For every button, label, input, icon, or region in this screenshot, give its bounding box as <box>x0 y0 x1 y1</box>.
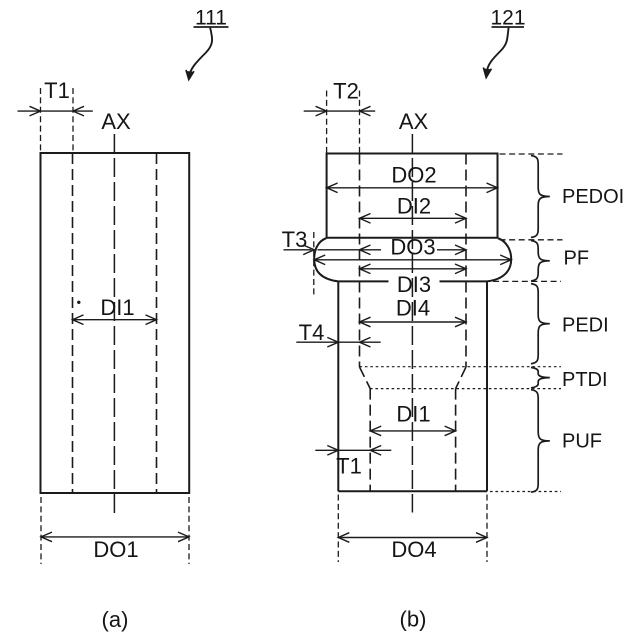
inner wall right taper (hidden) <box>456 367 466 389</box>
DI2 dimension line <box>360 217 467 219</box>
svg-text:T1: T1 <box>44 78 70 103</box>
svg-text:(a): (a) <box>102 607 129 632</box>
svg-text:121: 121 <box>490 7 525 30</box>
tube (a) inner wall left (hidden line) <box>72 153 74 493</box>
DI4 dimension line <box>360 321 467 323</box>
flange bottom edge segments <box>338 280 388 282</box>
axis AX centerline (b) <box>411 134 413 513</box>
T3 / DO3 dimension row <box>284 249 312 251</box>
lower body walls <box>337 281 339 491</box>
svg-text:PF: PF <box>564 248 590 270</box>
flange width dimension line <box>314 259 511 261</box>
DO1 extension lines <box>40 497 42 564</box>
svg-text:AX: AX <box>101 109 131 134</box>
svg-text:DI1: DI1 <box>100 295 134 320</box>
leader arrow for 111 <box>186 27 212 80</box>
tube (a) outer wall rectangle <box>41 153 190 493</box>
brace PF <box>531 241 550 282</box>
PEDOI top boundary dashed line <box>500 153 563 155</box>
lower body bottom edge <box>338 490 487 492</box>
upper body (PEDOI section) outline <box>327 154 498 239</box>
svg-text:PUF: PUF <box>562 431 602 453</box>
DI1 dimension line (a) <box>73 319 157 321</box>
svg-text:DO1: DO1 <box>93 537 138 562</box>
leader arrow for 121 <box>483 27 508 78</box>
svg-text:DI2: DI2 <box>397 194 431 219</box>
svg-text:111: 111 <box>195 7 227 30</box>
T1 dimension line (b) <box>315 449 391 451</box>
svg-text:PEDOI: PEDOI <box>562 186 624 208</box>
DI1 dimension line (b) <box>370 430 455 432</box>
inner wall left taper (hidden) <box>360 367 371 389</box>
PTDI/PUF boundary dotted line <box>370 388 561 390</box>
svg-text:T2: T2 <box>333 79 359 104</box>
svg-text:DO4: DO4 <box>391 537 436 562</box>
svg-text:T3: T3 <box>282 227 308 252</box>
T2 dimension line <box>304 110 376 112</box>
PEDI/PTDI boundary dotted line <box>360 366 562 368</box>
tube (a) inner wall right (hidden line) <box>156 153 158 493</box>
svg-text:PEDI: PEDI <box>562 315 609 337</box>
inner wall right lower (hidden) <box>455 389 457 492</box>
svg-text:T4: T4 <box>299 320 325 345</box>
svg-text:DI3: DI3 <box>397 272 431 297</box>
DO1 dimension line <box>41 536 189 538</box>
PF bottom boundary dashed line <box>493 280 561 282</box>
svg-text:DI4: DI4 <box>396 296 430 321</box>
svg-text:T1: T1 <box>336 454 362 479</box>
brace PEDI <box>531 284 550 364</box>
stray dot mark <box>77 301 80 304</box>
axis AX centerline (a) <box>113 134 115 514</box>
brace PEDOI <box>531 156 550 238</box>
brace PUF <box>531 390 550 493</box>
figure (b) reference numeral 121 <box>490 7 525 30</box>
DO2 dimension line <box>327 187 498 189</box>
bottom boundary dotted line <box>490 491 561 493</box>
figure (a) reference numeral 111 <box>194 7 229 30</box>
T4 dimension line <box>296 341 380 343</box>
inner wall left upper (hidden) <box>359 154 361 368</box>
DI3 dimension line <box>360 268 467 270</box>
svg-text:(b): (b) <box>400 607 427 632</box>
DO4 dimension line <box>338 537 487 539</box>
flange tip extension line <box>313 232 315 296</box>
PF top boundary dashed line <box>500 239 563 241</box>
flange right bulge <box>487 238 511 281</box>
svg-text:DI1: DI1 <box>396 402 430 427</box>
flange (PF) top edge <box>327 237 497 239</box>
svg-text:AX: AX <box>399 109 429 134</box>
T1 extension lines (a) <box>40 88 42 152</box>
svg-text:DO3: DO3 <box>390 235 435 260</box>
svg-text:PTDI: PTDI <box>562 369 608 391</box>
flange left bulge <box>314 238 338 281</box>
svg-text:DO2: DO2 <box>391 163 436 188</box>
inner wall left lower (hidden) <box>369 389 371 492</box>
inner wall right upper (hidden) <box>465 154 467 368</box>
brace PTDI <box>531 367 550 388</box>
T2 extension lines <box>326 91 328 154</box>
T1 dimension line (a) <box>18 110 93 112</box>
DO4 extension lines <box>337 495 339 563</box>
